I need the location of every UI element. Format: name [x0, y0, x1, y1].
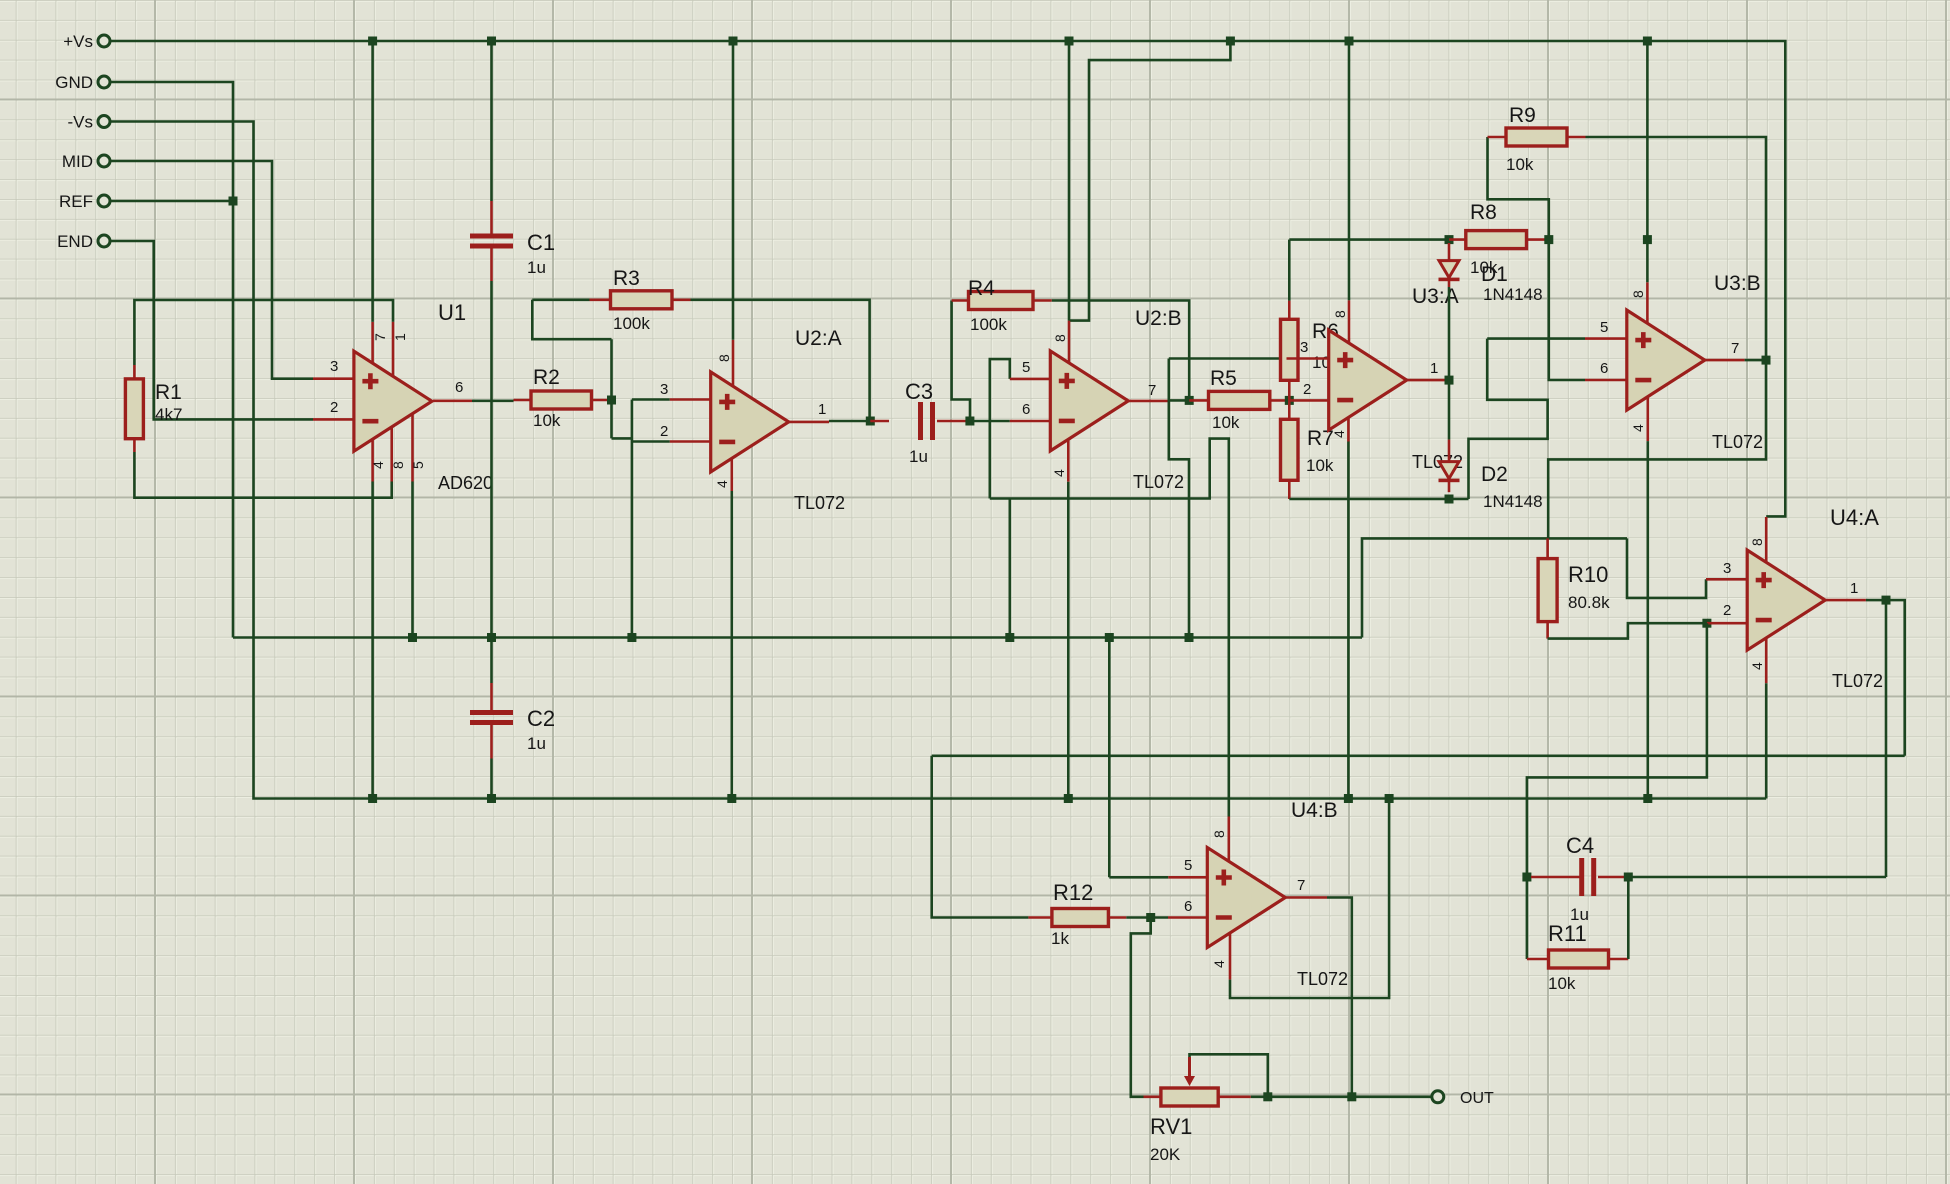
- node -Vs bus junction: [727, 794, 736, 803]
- svg-text:2: 2: [330, 399, 338, 416]
- node -Vs bus junction: [1385, 794, 1394, 803]
- resistor R2: [531, 391, 592, 409]
- capacitor C2: [470, 710, 513, 715]
- svg-text:4: 4: [1051, 469, 1067, 477]
- wire REF to GND: [110, 200, 233, 203]
- pin U4:A.3 stub: [1706, 578, 1747, 581]
- pin U2:B.5 stub: [1010, 378, 1051, 381]
- op-amp U2:B TL072: [1050, 351, 1128, 451]
- node GND bus junction: [627, 633, 636, 642]
- wire U3:A pin3 line: [1169, 357, 1287, 360]
- node +Vs junction: [1345, 37, 1354, 46]
- svg-text:1u: 1u: [527, 734, 546, 753]
- svg-text:2: 2: [1303, 381, 1311, 398]
- svg-text:5: 5: [410, 461, 426, 469]
- svg-text:R2: R2: [533, 366, 560, 389]
- pin R1 bottom lead: [133, 439, 136, 452]
- wire U4:A out down to C4 line: [1885, 600, 1888, 877]
- resistor R5: [1209, 391, 1270, 409]
- pin R2 right lead: [592, 399, 610, 402]
- wire +Vs branch to U2:B pin8 path: [1069, 41, 1230, 321]
- op-amp U3:A TL072: [1329, 330, 1407, 430]
- pin R7 top lead: [1288, 400, 1291, 419]
- pin D2 cathode lead: [1448, 482, 1451, 493]
- pin D1 anode lead: [1448, 243, 1451, 261]
- pin R3 right lead: [672, 298, 691, 301]
- svg-text:R3: R3: [613, 267, 640, 290]
- pin D2 anode lead: [1448, 440, 1451, 462]
- node U4:B out junction on OUT line: [1347, 1092, 1356, 1101]
- svg-text:R1: R1: [155, 381, 182, 404]
- svg-text:4: 4: [1331, 430, 1347, 438]
- svg-text:U1: U1: [438, 300, 466, 325]
- svg-text:TL072: TL072: [1832, 671, 1883, 691]
- wire U2:A out to C3: [829, 420, 870, 423]
- svg-text:U2:A: U2:A: [795, 327, 842, 350]
- pin U3:B.7 output stub: [1705, 359, 1745, 362]
- svg-text:U4:B: U4:B: [1291, 799, 1338, 822]
- svg-text:3: 3: [1300, 339, 1308, 356]
- pin U4:A.8 stub: [1765, 517, 1768, 562]
- node C4 left junction: [1522, 873, 1531, 882]
- pin R3 left lead: [590, 298, 611, 301]
- resistor R9: [1506, 128, 1567, 146]
- wire R3 left: [532, 298, 589, 301]
- svg-text:C1: C1: [527, 230, 555, 255]
- node C3 right junction: [965, 417, 974, 426]
- pin U1.1 stub: [392, 322, 395, 376]
- wire R2/R3 node to U2:A pin3: [610, 339, 613, 438]
- svg-text:5: 5: [1022, 359, 1030, 376]
- svg-text:2: 2: [1723, 602, 1731, 619]
- pin U2:B.8 stub: [1068, 321, 1071, 363]
- node -Vs bus junction: [1344, 794, 1353, 803]
- wire C1 to GND bus: [490, 281, 493, 638]
- pin U4:B.8 stub: [1228, 817, 1231, 862]
- wire U4:A pin2 to C4/R11: [1527, 623, 1707, 877]
- svg-text:8: 8: [1749, 538, 1765, 546]
- wire U1 out to R2: [472, 399, 514, 402]
- wire R12 to U4:B pin6: [1126, 916, 1148, 919]
- pin R6 bottom lead: [1288, 380, 1291, 400]
- pin C2 top lead: [490, 683, 493, 711]
- potentiometer RV1 20K: [1161, 1088, 1218, 1106]
- svg-text:6: 6: [1022, 401, 1030, 418]
- node +Vs junction: [1065, 37, 1074, 46]
- wire snake to U3:B pin5: [1469, 339, 1548, 499]
- svg-text:4: 4: [1749, 662, 1765, 670]
- svg-text:1N4148: 1N4148: [1483, 492, 1543, 511]
- svg-text:R4: R4: [968, 277, 995, 300]
- wire C3 to U2:B pin6: [970, 420, 1010, 423]
- svg-text:80.8k: 80.8k: [1568, 593, 1610, 612]
- svg-text:6: 6: [1600, 360, 1608, 377]
- op-amp U1 AD620: [354, 351, 432, 451]
- pin U4:B.5 stub: [1168, 876, 1207, 879]
- pin U1.7 stub: [371, 322, 374, 363]
- wire U1 pin5 to GND bus: [411, 482, 414, 638]
- svg-text:R11: R11: [1548, 921, 1587, 946]
- capacitor C3: [918, 402, 923, 440]
- node +Vs junction: [487, 37, 496, 46]
- wire +Vs to U3:A pin8: [1348, 41, 1351, 300]
- pin U2:A.3 stub: [670, 398, 711, 401]
- pin U3:B.5 stub: [1585, 337, 1627, 340]
- wire to U2:A pin3: [632, 398, 670, 401]
- terminal GND: [98, 76, 110, 88]
- node U2:B out junction: [1185, 396, 1194, 405]
- svg-text:AD620: AD620: [438, 473, 493, 493]
- pin C1 bottom lead: [490, 248, 493, 281]
- svg-text:8: 8: [1630, 290, 1646, 298]
- svg-text:100k: 100k: [613, 314, 650, 333]
- node +Vs junction: [1643, 37, 1652, 46]
- resistor R8: [1466, 231, 1527, 249]
- pin U3:A.2 stub: [1289, 399, 1328, 402]
- svg-text:2: 2: [660, 423, 668, 440]
- wire R4 right to U2:B out: [1052, 301, 1189, 401]
- node on U3:B pin8 wire: [1643, 235, 1652, 244]
- svg-text:10k: 10k: [1306, 456, 1334, 475]
- svg-text:1: 1: [1430, 360, 1438, 377]
- svg-text:4: 4: [714, 480, 730, 488]
- node GND bus junction: [1185, 633, 1194, 642]
- wire U3:A pin3 net to GND bus: [1169, 359, 1189, 638]
- node R2-R3 junction: [607, 396, 616, 405]
- svg-text:5: 5: [1184, 857, 1192, 874]
- resistor R1: [125, 379, 143, 439]
- terminal END: [98, 235, 110, 247]
- capacitor C4: [1579, 858, 1584, 896]
- wire R3 left loop: [532, 300, 611, 339]
- pin U2:A.8 stub: [732, 340, 735, 386]
- wire U4:B pin6 node to RV1 left: [1131, 918, 1151, 1097]
- pin U3:A.8 stub: [1348, 300, 1351, 343]
- wire U4:A out: [1866, 599, 1886, 602]
- wire END to U1 pin2: [110, 241, 313, 419]
- pin U4:B.6 stub: [1168, 916, 1207, 919]
- node GND bus junction: [487, 633, 496, 642]
- pin R2 left lead: [514, 399, 532, 402]
- svg-text:RV1: RV1: [1150, 1114, 1192, 1139]
- wire R9 left loop: [1488, 137, 1549, 240]
- svg-text:8: 8: [1332, 310, 1348, 318]
- svg-text:C4: C4: [1566, 833, 1594, 858]
- resistor R3: [611, 291, 673, 309]
- svg-text:4: 4: [1630, 424, 1646, 432]
- terminal -Vs: [98, 116, 110, 128]
- pin U1.8 stub: [390, 426, 393, 481]
- resistor R11: [1549, 950, 1609, 968]
- pin RV1 left lead: [1144, 1096, 1161, 1099]
- svg-text:END: END: [57, 232, 93, 251]
- pin R12 right lead: [1108, 916, 1126, 919]
- svg-text:8: 8: [716, 354, 732, 362]
- pin RV1 wiper arrow: [1188, 1057, 1191, 1078]
- pin R8 right lead: [1527, 238, 1547, 241]
- wire drop to GND bus: [1008, 499, 1011, 638]
- svg-text:1k: 1k: [1051, 929, 1069, 948]
- wire U4:B pin5 line: [1109, 876, 1168, 879]
- svg-text:5: 5: [1600, 319, 1608, 336]
- svg-text:4k7: 4k7: [155, 405, 182, 424]
- node -Vs bus junction: [487, 794, 496, 803]
- svg-text:1: 1: [392, 333, 408, 341]
- svg-text:6: 6: [1184, 898, 1192, 915]
- wire +Vs to U2:B pin8: [1068, 41, 1071, 321]
- pin U4:A.4 stub: [1765, 638, 1768, 683]
- resistor R10: [1538, 559, 1557, 622]
- pin U2:A.1 output stub: [789, 421, 829, 424]
- wire D1 to U3:A out: [1448, 287, 1451, 380]
- wire OUT line: [1251, 1096, 1431, 1099]
- node GND bus junction: [1005, 633, 1014, 642]
- pin U1.5 stub: [411, 413, 414, 481]
- svg-text:R9: R9: [1509, 104, 1536, 127]
- wire U3:B out: [1745, 359, 1766, 362]
- pin D1 cathode lead: [1448, 281, 1451, 287]
- wire +Vs to U3:B pin8: [1646, 41, 1649, 282]
- pin U3:B.6 stub: [1585, 379, 1627, 382]
- svg-text:MID: MID: [62, 152, 93, 171]
- svg-text:20K: 20K: [1150, 1145, 1181, 1164]
- wire R4 left to C3 node: [952, 301, 970, 422]
- node +Vs junction: [729, 37, 738, 46]
- node R5/R6/R7/U3:A.2 junction: [1285, 396, 1294, 405]
- resistor R4: [969, 292, 1034, 310]
- wire U1 pin7 to +Vs: [371, 41, 374, 322]
- pin R9 right lead: [1567, 136, 1586, 139]
- wire MID to U1 pin3: [110, 161, 313, 379]
- pin C4 left lead: [1531, 876, 1580, 879]
- node -Vs bus junction: [368, 794, 377, 803]
- node +Vs junction: [1226, 37, 1235, 46]
- svg-text:TL072: TL072: [794, 493, 845, 513]
- svg-text:4: 4: [370, 461, 386, 469]
- pin U4:A.2 stub: [1707, 622, 1747, 625]
- svg-text:1u: 1u: [527, 258, 546, 277]
- wire GND bus to C2: [490, 638, 493, 684]
- wire R6 top riser: [1288, 240, 1291, 301]
- pin U4:B.7 output stub: [1286, 896, 1327, 899]
- svg-text:3: 3: [660, 381, 668, 398]
- resistor R12: [1052, 909, 1109, 927]
- svg-text:TL072: TL072: [1712, 432, 1763, 452]
- wire +Vs rail top: [110, 41, 1785, 516]
- wire R10 top line: [1362, 538, 1627, 637]
- node R8 left junction: [1445, 235, 1454, 244]
- pin U2:B.4 stub: [1067, 439, 1070, 481]
- op-amp U4:A TL072: [1747, 550, 1825, 650]
- wire GND vertical: [110, 82, 233, 638]
- pin U3:A.1 output stub: [1407, 379, 1447, 382]
- svg-text:D2: D2: [1481, 463, 1508, 486]
- pin U4:A.1 output stub: [1825, 599, 1866, 602]
- pin R11 right lead: [1609, 958, 1629, 961]
- svg-text:-Vs: -Vs: [68, 113, 94, 132]
- pin C4 right lead: [1598, 876, 1628, 879]
- pin R4 right lead: [1033, 299, 1052, 302]
- svg-text:1: 1: [818, 401, 826, 418]
- svg-text:7: 7: [1297, 877, 1305, 894]
- wire long mid rail: [932, 754, 1905, 757]
- wire to U4:B pin6 stub: [1151, 916, 1168, 919]
- terminal REF: [98, 195, 110, 207]
- svg-text:1N4148: 1N4148: [1483, 285, 1543, 304]
- pin U2:B.6 stub: [1010, 420, 1051, 423]
- pin U3:A.3 stub: [1287, 357, 1329, 360]
- pin C1 top lead: [490, 201, 493, 234]
- wire GND bus to U4:B pin5: [1108, 638, 1111, 878]
- pin U1.2 stub: [313, 418, 354, 421]
- svg-text:8: 8: [390, 461, 406, 469]
- node U3:A out / D1 / D2 junction: [1445, 376, 1454, 385]
- pin U1.3 stub: [313, 377, 354, 380]
- svg-text:10k: 10k: [1506, 155, 1534, 174]
- diode D2 1N4148: [1439, 462, 1459, 479]
- node GND bus junction: [1105, 633, 1114, 642]
- svg-text:7: 7: [1731, 340, 1739, 357]
- wire RV1 wiper to right terminal: [1190, 1054, 1268, 1097]
- pin U4:B.4 stub: [1229, 933, 1232, 980]
- svg-text:D1: D1: [1481, 263, 1508, 286]
- wire U4:A pin4 to -Vs bus: [1765, 683, 1768, 798]
- svg-text:6: 6: [455, 379, 463, 396]
- resistor R7: [1281, 419, 1299, 480]
- node C4 right junction: [1624, 873, 1633, 882]
- wire lower run to U4:B pin8: [990, 439, 1229, 817]
- svg-text:+Vs: +Vs: [63, 32, 93, 51]
- svg-text:U3:A: U3:A: [1412, 285, 1459, 308]
- pin R5 left lead: [1189, 399, 1208, 402]
- wire R10 line to U4:A pin3: [1627, 538, 1706, 598]
- wire U4:B out to OUT line: [1327, 898, 1352, 1097]
- terminal MID: [98, 155, 110, 167]
- svg-text:U2:B: U2:B: [1135, 307, 1182, 330]
- resistor R6: [1281, 319, 1299, 380]
- wire U3:B pin4 to -Vs bus: [1647, 441, 1650, 798]
- svg-text:3: 3: [1723, 560, 1731, 577]
- svg-text:TL072: TL072: [1297, 969, 1348, 989]
- pin C3 left lead: [870, 420, 889, 423]
- svg-text:R8: R8: [1470, 201, 1497, 224]
- wire to U2:A pin2: [632, 440, 670, 443]
- svg-text:R10: R10: [1568, 562, 1608, 587]
- node GND bus junction: [408, 633, 417, 642]
- svg-text:10k: 10k: [1548, 974, 1576, 993]
- wire C2 to -Vs bus: [490, 759, 493, 799]
- op-amp U4:B TL072: [1207, 848, 1285, 948]
- svg-text:8: 8: [1052, 334, 1068, 342]
- pin R10 top lead: [1546, 538, 1549, 558]
- node RV1 right junction: [1263, 1092, 1272, 1101]
- node U4:A out junction: [1882, 596, 1891, 605]
- pin C2 bottom lead: [490, 725, 493, 759]
- wire +Vs to C1: [490, 41, 493, 201]
- wire U2:B pin5 to GND bus: [990, 359, 1010, 498]
- svg-text:U4:A: U4:A: [1830, 505, 1879, 530]
- node R8 right junction: [1544, 235, 1553, 244]
- pin R4 left lead: [952, 299, 969, 302]
- pin C3 right lead: [937, 420, 966, 423]
- pin U2:A.2 stub: [670, 440, 711, 443]
- svg-text:GND: GND: [55, 73, 93, 92]
- node D2 cathode junction: [1445, 495, 1454, 504]
- svg-text:10k: 10k: [1212, 413, 1240, 432]
- wire U2:A pin2 node to GND bus: [631, 400, 634, 638]
- node REF-GND junction: [229, 197, 238, 206]
- wire R11 right to C4 node: [1627, 877, 1630, 959]
- terminal +Vs: [98, 35, 110, 47]
- pin RV1 right lead: [1218, 1096, 1251, 1099]
- svg-text:REF: REF: [59, 192, 93, 211]
- wire R12 left to long rail: [932, 756, 1029, 918]
- svg-text:8: 8: [1211, 830, 1227, 838]
- pin R5 right lead: [1270, 399, 1287, 402]
- pin R6 top lead: [1288, 301, 1291, 320]
- wire +Vs to U2:A pin8: [732, 41, 735, 340]
- node -Vs bus junction: [1643, 794, 1652, 803]
- svg-text:C2: C2: [527, 706, 555, 731]
- wire R3 right to C3 node: [691, 300, 870, 421]
- svg-text:7: 7: [372, 333, 388, 341]
- node U4:A pin2 junction: [1702, 619, 1711, 628]
- wire R1 bottom to U1 pin8: [134, 452, 391, 498]
- wire GND bus horizontal: [233, 636, 1362, 639]
- pin R10 bottom lead: [1546, 622, 1549, 639]
- pin R7 bottom lead: [1288, 480, 1291, 499]
- pin U3:A.4 stub: [1347, 417, 1350, 441]
- pin R9 left lead: [1488, 136, 1507, 139]
- wire C4 right to U4:A out: [1628, 876, 1886, 879]
- pin R11 left lead: [1527, 958, 1549, 961]
- svg-text:1u: 1u: [909, 447, 928, 466]
- wire C4 left to R11: [1526, 877, 1529, 959]
- pin U1.4 stub: [371, 438, 374, 481]
- svg-text:1: 1: [1850, 580, 1858, 597]
- wire R6 top to R8: [1289, 238, 1449, 241]
- wire R1 top to U1 pin1: [134, 300, 393, 365]
- node C3 left junction: [866, 417, 875, 426]
- node -Vs bus junction: [1064, 794, 1073, 803]
- node U3:B out junction: [1762, 356, 1771, 365]
- svg-text:4: 4: [1211, 960, 1227, 968]
- pin R8 left lead: [1449, 238, 1466, 241]
- wire U3:A pin4 to -Vs bus: [1347, 442, 1350, 799]
- wire U3:B pin5 line: [1487, 337, 1585, 340]
- wire U1 pin4 to -Vs bus: [371, 482, 374, 799]
- svg-text:OUT: OUT: [1460, 1090, 1494, 1107]
- capacitor C1: [470, 234, 513, 239]
- pin U2:A.4 stub: [730, 458, 733, 491]
- wire U4:A out loop: [1886, 600, 1905, 756]
- svg-text:TL072: TL072: [1133, 472, 1184, 492]
- pin U3:B.8 stub: [1646, 282, 1649, 323]
- wire U2:B pin4 to -Vs bus: [1067, 482, 1070, 799]
- wire U2:A pin4 to -Vs bus: [730, 491, 733, 799]
- svg-text:100k: 100k: [970, 315, 1007, 334]
- wire R9 right to U3:B out: [1586, 137, 1767, 360]
- op-amp U2:A TL072: [711, 372, 789, 472]
- svg-text:C3: C3: [905, 379, 933, 404]
- pin R1 top lead: [133, 365, 136, 379]
- pin U1.6 output stub: [433, 399, 472, 402]
- diode D1 1N4148: [1439, 261, 1459, 278]
- svg-text:U3:B: U3:B: [1714, 272, 1761, 295]
- wire U3:B out down to R10 line: [1548, 360, 1766, 538]
- svg-text:3: 3: [330, 358, 338, 375]
- svg-text:R5: R5: [1210, 367, 1237, 390]
